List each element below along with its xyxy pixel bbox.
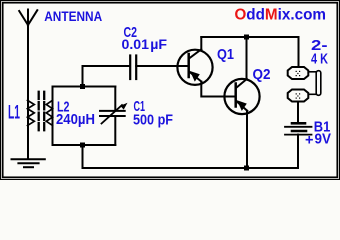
node junction bottom rail bbox=[244, 166, 249, 171]
wire C2 to Q1 base bbox=[136, 65, 188, 67]
headphone earpiece top bbox=[288, 67, 309, 79]
wire top rail bbox=[201, 36, 298, 38]
svg-text:240µH: 240µH bbox=[56, 111, 95, 128]
label battery voltage bbox=[305, 131, 331, 149]
label headphone impedance bbox=[311, 37, 328, 68]
svg-text:4 K: 4 K bbox=[311, 51, 328, 68]
antenna bbox=[19, 10, 37, 26]
headphone earpiece bottom bbox=[288, 90, 309, 102]
inductor L1 winding bbox=[28, 100, 35, 125]
svg-text:ix.com: ix.com bbox=[278, 7, 326, 24]
wire headphone to battery bbox=[297, 102, 299, 123]
wire tank loop top bbox=[53, 86, 116, 88]
wire Q2 collector to top rail junction bbox=[246, 37, 248, 79]
ground bbox=[12, 159, 45, 167]
wire Q1 emitter to Q2 base bbox=[201, 82, 235, 97]
svg-text:Q1: Q1 bbox=[217, 46, 234, 63]
transistor Q1 bbox=[177, 49, 212, 85]
wire antenna lead down to ground bbox=[27, 25, 29, 159]
transformer core bbox=[39, 92, 45, 133]
wire top rail down to headphone bbox=[298, 37, 300, 67]
capacitor C1 variable arrow bbox=[102, 103, 128, 124]
wire Q2 emitter to bottom rail bbox=[246, 111, 248, 168]
svg-text:O: O bbox=[235, 7, 247, 24]
svg-text:0.01 µF: 0.01 µF bbox=[122, 36, 168, 52]
transistor Q2 bbox=[224, 79, 259, 114]
border outer frame bbox=[1, 1, 340, 180]
wire stub tank bottom to ground rail bbox=[82, 145, 84, 168]
node junction top rail bbox=[244, 35, 249, 40]
svg-text:500 pF: 500 pF bbox=[133, 112, 173, 129]
border inner frame bbox=[3, 3, 338, 178]
inductor L2 winding bbox=[46, 100, 52, 125]
wire tank loop bottom bbox=[53, 144, 116, 146]
svg-text:+: + bbox=[305, 132, 314, 149]
node junction tank top bbox=[80, 84, 85, 89]
capacitor C1 plates bbox=[100, 111, 125, 116]
svg-text:L1: L1 bbox=[8, 103, 20, 124]
svg-text:M: M bbox=[265, 7, 278, 24]
logo OddMix.com bbox=[235, 7, 327, 24]
wire Q1 collector to top rail bbox=[200, 37, 202, 50]
wire battery to bottom rail bbox=[297, 135, 299, 168]
svg-text:ANTENNA: ANTENNA bbox=[44, 8, 102, 24]
battery B1 bbox=[285, 123, 312, 134]
wire headphone series loop bbox=[308, 71, 321, 96]
svg-text:dd: dd bbox=[246, 7, 265, 24]
svg-text:9V: 9V bbox=[315, 131, 332, 148]
wire tank loop left side bbox=[52, 87, 54, 146]
wire stub tank top to C2 line bbox=[83, 66, 130, 88]
node junction tank bottom bbox=[80, 143, 85, 148]
capacitor C2 plates bbox=[130, 56, 136, 80]
capacitor C1 top lead bbox=[114, 87, 116, 111]
svg-text:Q2: Q2 bbox=[253, 66, 271, 83]
wire bottom rail bbox=[83, 167, 299, 169]
capacitor C1 bottom lead bbox=[114, 116, 116, 145]
